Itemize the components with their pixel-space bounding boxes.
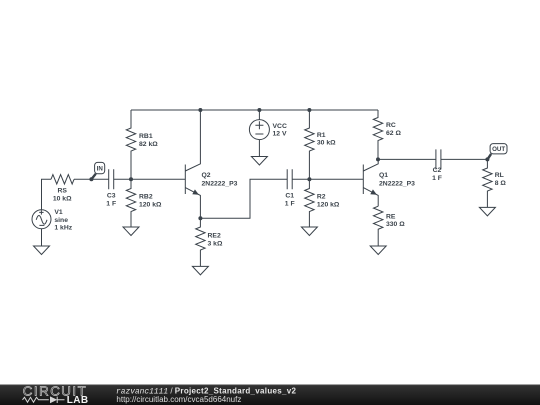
- svg-text:LAB: LAB: [67, 395, 89, 405]
- svg-text:Q2: Q2: [202, 172, 211, 179]
- svg-text:RB2: RB2: [139, 194, 153, 201]
- svg-text:30 kΩ: 30 kΩ: [317, 140, 336, 147]
- svg-text:120 kΩ: 120 kΩ: [139, 201, 162, 208]
- svg-text:82 kΩ: 82 kΩ: [139, 141, 158, 148]
- svg-text:1 F: 1 F: [285, 200, 295, 207]
- svg-text:VCC: VCC: [273, 123, 287, 130]
- svg-text:2N2222_P3: 2N2222_P3: [379, 181, 415, 188]
- svg-text:V1: V1: [54, 209, 63, 216]
- svg-text:IN: IN: [97, 166, 104, 173]
- svg-text:2N2222_P3: 2N2222_P3: [202, 181, 238, 188]
- svg-text:10 kΩ: 10 kΩ: [53, 195, 72, 202]
- svg-text:8 Ω: 8 Ω: [495, 180, 507, 187]
- svg-text:Q1: Q1: [379, 172, 388, 179]
- svg-text:C1: C1: [285, 193, 294, 200]
- svg-text:120 kΩ: 120 kΩ: [317, 201, 340, 208]
- svg-text:R1: R1: [317, 132, 326, 139]
- svg-text:C3: C3: [107, 193, 116, 200]
- svg-text:RS: RS: [57, 188, 67, 195]
- svg-text:C2: C2: [433, 167, 442, 174]
- svg-text:OUT: OUT: [492, 146, 505, 153]
- svg-text:R2: R2: [317, 194, 326, 201]
- svg-text:http://circuitlab.com/cvca5d66: http://circuitlab.com/cvca5d664nufz: [116, 395, 241, 404]
- svg-text:1 F: 1 F: [432, 175, 442, 182]
- svg-text:RE2: RE2: [208, 233, 221, 240]
- svg-text:1 F: 1 F: [106, 200, 116, 207]
- svg-text:RL: RL: [495, 172, 504, 179]
- svg-text:1 kHz: 1 kHz: [54, 225, 72, 232]
- svg-text:62 Ω: 62 Ω: [386, 130, 401, 137]
- svg-text:12 V: 12 V: [273, 130, 287, 137]
- svg-text:sine: sine: [54, 217, 68, 224]
- svg-text:RB1: RB1: [139, 133, 153, 140]
- svg-text:RE: RE: [386, 213, 396, 220]
- svg-text:3 kΩ: 3 kΩ: [208, 240, 223, 247]
- svg-text:RC: RC: [386, 122, 396, 129]
- svg-text:330 Ω: 330 Ω: [386, 221, 405, 228]
